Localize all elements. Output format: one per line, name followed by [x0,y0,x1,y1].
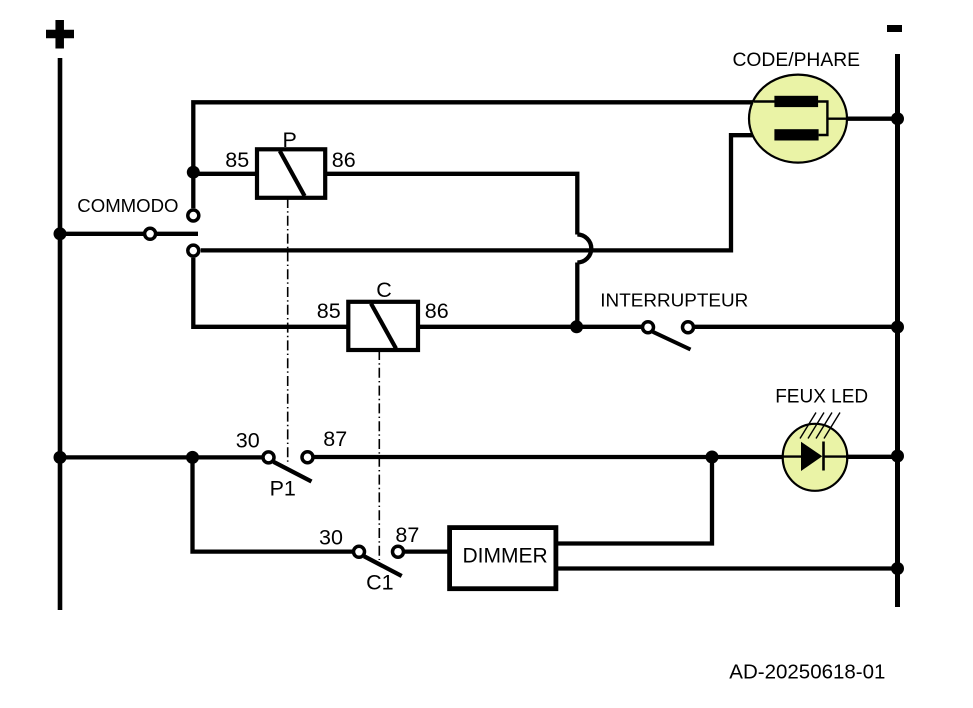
lamp low-beam filament [774,129,818,140]
interrupteur left contact [643,322,654,333]
svg-text:86: 86 [332,148,356,172]
wire junction to relay P terminal 85 [193,172,257,176]
svg-text:85: 85 [317,299,341,323]
dash-dot link relay P to contact P1 [287,198,289,462]
junction right bus / dimmer return [891,562,904,575]
dash-dot link relay C to contact C1 [378,350,380,560]
svg-text:30: 30 [236,428,260,452]
COMMODO lever [157,232,198,236]
wire P1 to feux led [314,455,783,459]
svg-text:85: 85 [225,148,249,172]
svg-text:CODE/PHARE: CODE/PHARE [733,50,861,71]
junction right bus / lamp [891,112,904,125]
COMMODO lower throw contact [188,245,199,256]
plus terminal symbol [46,20,74,49]
wire lamp to right bus [846,117,896,121]
wire continue down to interrupteur rail [575,263,579,327]
led anode lead [783,455,801,457]
junction branch to C1 [186,451,199,464]
wire interrupteur to right bus [695,325,896,329]
lamp high-beam filament [754,96,818,107]
contact C1 right [393,546,404,557]
COMMODO pole contact [145,228,156,239]
svg-text:COMMODO: COMMODO [77,195,178,216]
svg-text:87: 87 [323,427,347,451]
wire upper throw up to top rail toward lamp [193,102,754,208]
interrupteur right contact [683,322,694,333]
junction right bus / led rail [891,450,904,463]
svg-text:30: 30 [319,525,343,549]
contact C1 left [354,546,365,557]
svg-text:C1: C1 [366,571,393,595]
lamp CODE/PHARE bulb [749,75,847,163]
relay coil P [257,149,325,198]
dimmer module box [450,528,556,589]
led rays [800,413,840,439]
wire thin inside lamp to filament [753,134,776,136]
feux led lamp body [783,424,848,491]
junction relay P drop / interrupteur rail [570,320,583,333]
minus terminal symbol [887,25,902,32]
svg-text:87: 87 [395,523,419,547]
wire lower throw to lamp low-beam filament [201,135,754,250]
junction right bus / interrupteur rail [891,321,904,334]
interrupteur lever [653,332,691,350]
contact C1 lever [364,556,402,576]
relay coil C [348,302,418,350]
wire hop over lamp feed [577,235,591,263]
wire relay C 86 to interrupteur [418,325,642,329]
svg-text:DIMMER: DIMMER [463,544,548,567]
contact P1 lever [274,462,312,482]
wire dimmer output up to led rail [556,457,712,544]
svg-text:FEUX LED: FEUX LED [775,387,868,408]
svg-text:P1: P1 [270,477,296,501]
led cathode lead [824,455,848,457]
junction left bus / COMMODO [54,227,67,240]
wire left bus to contact P1 [60,455,262,459]
led cathode bar [822,442,825,471]
contact P1 right [302,452,313,463]
contact P1 left [263,452,274,463]
svg-text:AD-20250618-01: AD-20250618-01 [729,660,885,683]
svg-text:86: 86 [425,299,449,323]
right supply bus (-) [895,54,900,607]
junction at relay P branch [187,166,200,179]
COMMODO upper throw contact [188,210,199,221]
wire lower throw down to relay C terminal 85 [193,258,348,327]
wire bus to COMMODO pole [60,232,144,236]
led triangle [801,442,822,471]
wire led to right bus [846,455,896,459]
wire dimmer output to right bus [556,566,896,570]
wire branch down to contact C1 [193,457,353,551]
left supply bus (+) [58,58,63,610]
svg-text:INTERRUPTEUR: INTERRUPTEUR [600,290,748,311]
wire C1 to dimmer [405,549,450,553]
wire relay P 86 to vertical drop [325,174,577,235]
junction dimmer feed / led rail [706,451,719,464]
svg-text:C: C [376,278,392,302]
junction left bus / P1 rail [54,451,67,464]
lamp filament common bracket [818,102,848,136]
